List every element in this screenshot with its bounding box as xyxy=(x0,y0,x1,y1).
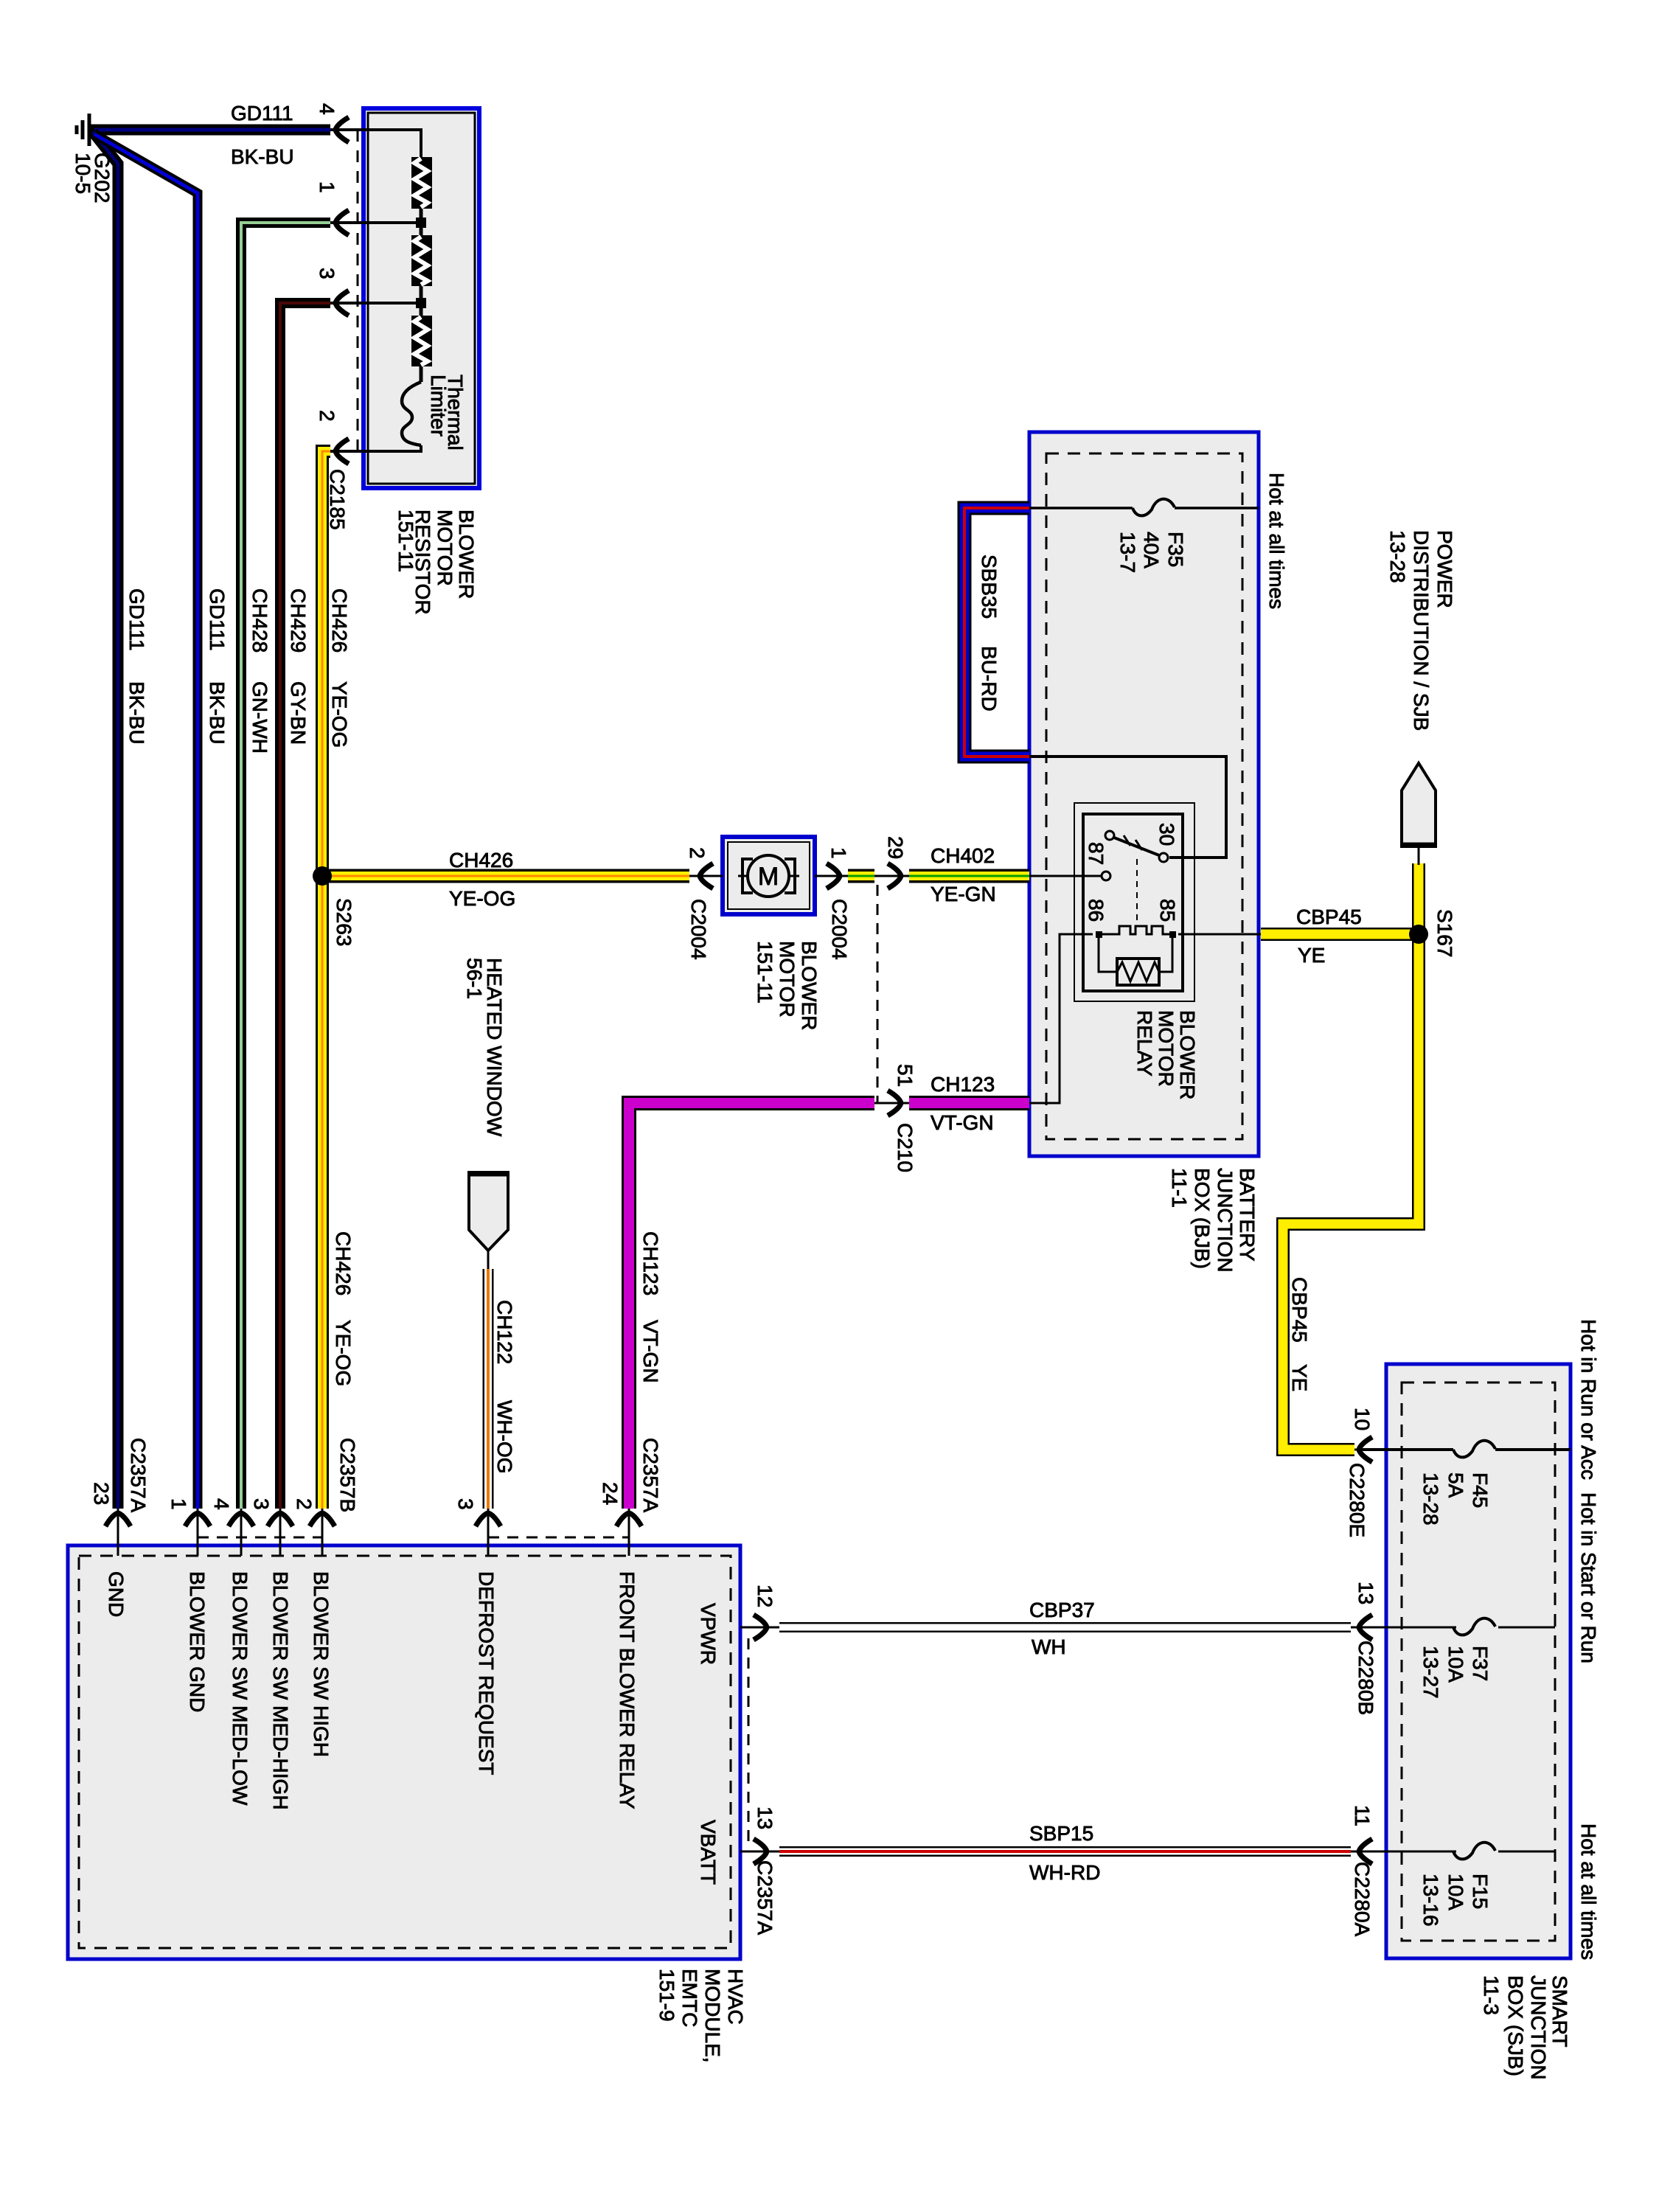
svg-text:S167: S167 xyxy=(1433,909,1456,957)
svg-text:SBP15: SBP15 xyxy=(1029,1822,1093,1845)
pin 1 line to chain xyxy=(330,221,421,224)
svg-text:13-28: 13-28 xyxy=(1419,1472,1442,1526)
dashed link switch to coil xyxy=(1136,859,1138,923)
svg-text:WH-OG: WH-OG xyxy=(493,1400,516,1474)
label heated window xyxy=(463,958,506,1137)
svg-text:YE-OG: YE-OG xyxy=(449,887,515,910)
svg-text:13-16: 13-16 xyxy=(1419,1874,1442,1927)
svg-text:BLOWER: BLOWER xyxy=(798,941,821,1030)
svg-text:YE: YE xyxy=(1288,1364,1311,1391)
label blower motor relay xyxy=(1133,1010,1199,1099)
resistor R1 xyxy=(411,157,432,209)
svg-text:Hot in Run or Acc: Hot in Run or Acc xyxy=(1577,1319,1600,1480)
heated window off-page pentagon xyxy=(469,1172,508,1269)
labels SJB fuses xyxy=(1419,1472,1492,1927)
junction squares xyxy=(416,218,426,228)
svg-text:YE-OG: YE-OG xyxy=(332,1320,355,1386)
svg-text:151-9: 151-9 xyxy=(655,1969,678,2022)
svg-text:VT-GN: VT-GN xyxy=(639,1320,662,1383)
label blower motor resistor xyxy=(394,509,478,615)
svg-text:1: 1 xyxy=(827,847,850,859)
svg-text:BOX (BJB): BOX (BJB) xyxy=(1191,1168,1214,1269)
svg-text:BATTERY: BATTERY xyxy=(1236,1168,1259,1262)
HVAC module box xyxy=(68,1545,740,1959)
svg-text:S263: S263 xyxy=(333,898,355,946)
svg-text:56-1: 56-1 xyxy=(463,958,486,999)
HVAC right connector dashed C2357A (pins 12-13) xyxy=(748,1638,750,1841)
svg-text:CBP45: CBP45 xyxy=(1288,1277,1311,1343)
arrows: SJB pins (tip left) xyxy=(1359,1437,1372,1462)
parallel resistor xyxy=(1099,934,1172,972)
motor circle M xyxy=(748,855,789,897)
svg-text:3: 3 xyxy=(454,1498,477,1510)
wire CBP37 WH : HVAC pin 12 to SJB pin 13 xyxy=(779,1622,1351,1632)
svg-text:C2185: C2185 xyxy=(326,469,349,530)
svg-text:BK-BU: BK-BU xyxy=(231,145,294,168)
svg-text:HVAC: HVAC xyxy=(724,1969,747,2025)
svg-text:11: 11 xyxy=(1351,1805,1374,1826)
pin 29/51 gap thin lines xyxy=(689,876,909,1103)
svg-text:YE-OG: YE-OG xyxy=(328,681,351,748)
svg-text:SBB35: SBB35 xyxy=(978,554,1001,619)
svg-text:C210: C210 xyxy=(894,1123,917,1172)
wire CH123 VT-GN : BJB to pin 51 xyxy=(909,1096,1029,1110)
svg-text:CH122: CH122 xyxy=(493,1300,516,1364)
svg-text:13-27: 13-27 xyxy=(1419,1646,1442,1699)
labels HVAC internal xyxy=(105,1571,720,1885)
label wire GD111 BK-BU top xyxy=(231,102,294,168)
splice S263 xyxy=(313,866,332,886)
labels blower motor pins xyxy=(686,836,917,1172)
BJB: F35 fuse line xyxy=(1029,507,1259,509)
svg-text:BLOWER GND: BLOWER GND xyxy=(186,1571,209,1712)
thermal limiter symbol xyxy=(402,382,421,445)
pin 3 line to chain xyxy=(330,302,421,305)
svg-text:BLOWER: BLOWER xyxy=(1176,1010,1199,1099)
svg-text:VPWR: VPWR xyxy=(697,1603,720,1665)
svg-text:40A: 40A xyxy=(1140,532,1163,568)
wire CBP45 YE : relay 85 to S167 xyxy=(1261,928,1413,941)
svg-text:13-7: 13-7 xyxy=(1116,532,1139,573)
wire CH123 VT-GN : pin 51 to HVAC pin 24 xyxy=(629,1103,874,1509)
svg-text:C2357A: C2357A xyxy=(754,1860,776,1935)
labels resistor pins xyxy=(316,103,349,530)
BJB internal: SBB35 to relay pin 30 xyxy=(1029,757,1226,858)
svg-text:F45: F45 xyxy=(1469,1472,1492,1508)
blower motor relay xyxy=(1074,803,1194,1001)
label wire CH426 lower xyxy=(332,1231,359,1512)
svg-text:MOTOR: MOTOR xyxy=(434,509,456,586)
BJB internal: CH123 to relay pin 86 xyxy=(1029,934,1093,1103)
svg-text:WH-RD: WH-RD xyxy=(1029,1861,1100,1884)
resistor box internal wiring xyxy=(330,130,426,451)
label blower motor xyxy=(754,941,821,1030)
svg-text:BLOWER SW MED-LOW: BLOWER SW MED-LOW xyxy=(229,1571,251,1806)
connector C210/C2004 dashed line xyxy=(877,885,879,1103)
BJB internal: relay pin 85 to CBP45 xyxy=(1178,933,1261,936)
svg-text:23: 23 xyxy=(90,1482,113,1505)
HVAC pin stub lines xyxy=(118,1509,779,1851)
svg-text:5A: 5A xyxy=(1444,1472,1467,1498)
resistor box: connector C2185 dashed line xyxy=(357,130,359,451)
blower motor resistor box xyxy=(364,108,479,488)
wire CH428 GN-WH : resistor pin 1 to HVAC pin 4 xyxy=(241,223,330,1509)
svg-text:12: 12 xyxy=(754,1585,776,1607)
SJB pin stub lines xyxy=(1351,1450,1386,1851)
switch: pin 87a contact and blade to pin 30 xyxy=(1105,831,1114,840)
svg-text:87: 87 xyxy=(1085,842,1107,865)
svg-text:CH123: CH123 xyxy=(639,1231,662,1295)
svg-text:C2280E: C2280E xyxy=(1346,1463,1368,1537)
label power distribution xyxy=(1386,530,1456,731)
svg-text:13: 13 xyxy=(754,1806,776,1829)
svg-text:BLOWER: BLOWER xyxy=(455,509,478,599)
svg-text:CH402: CH402 xyxy=(931,844,995,867)
svg-text:2: 2 xyxy=(686,847,709,859)
coil between 86 and 85 xyxy=(1099,926,1172,934)
svg-text:CH429: CH429 xyxy=(287,588,310,653)
wire SBB35 BU-RD : F35 loop outside BJB xyxy=(964,508,1029,757)
wire CH429 GY-BN : resistor pin 3 to HVAC pin 3 xyxy=(280,303,330,1509)
svg-text:BOX (SJB): BOX (SJB) xyxy=(1504,1975,1527,2076)
chain segments xyxy=(420,208,423,235)
label smart junction box xyxy=(1480,1975,1571,2080)
svg-text:F15: F15 xyxy=(1469,1874,1492,1909)
pin 2 line from thermal limiter xyxy=(330,445,421,451)
labels wire CBP37 WH xyxy=(1029,1599,1095,1658)
svg-text:30: 30 xyxy=(1155,823,1178,846)
label thermal limiter xyxy=(427,375,467,451)
svg-text:2: 2 xyxy=(316,410,338,422)
svg-text:2: 2 xyxy=(293,1498,316,1510)
svg-text:F37: F37 xyxy=(1469,1646,1492,1681)
resistor R3 xyxy=(411,316,432,366)
wire CH402 YE-GN : pin 29 to BJB xyxy=(909,869,1029,883)
power off-page pentagon (above S167) xyxy=(1402,763,1436,865)
svg-text:51: 51 xyxy=(894,1064,917,1087)
svg-text:1: 1 xyxy=(167,1498,190,1510)
svg-text:GD111: GD111 xyxy=(206,588,229,651)
svg-text:GD111: GD111 xyxy=(125,588,148,651)
svg-text:POWER: POWER xyxy=(1433,530,1456,608)
blower motor internals xyxy=(689,855,848,897)
fuse F15 xyxy=(1453,1843,1495,1860)
wire CH122 WH-OG : heated window to HVAC pin 3 xyxy=(483,1269,494,1509)
SJB fuse row 13 xyxy=(1360,1627,1555,1629)
svg-text:Hot in Start or Run: Hot in Start or Run xyxy=(1577,1492,1600,1663)
svg-text:BLOWER SW MED-HIGH: BLOWER SW MED-HIGH xyxy=(269,1571,292,1810)
svg-text:JUNCTION: JUNCTION xyxy=(1527,1975,1550,2080)
svg-text:86: 86 xyxy=(1085,899,1107,922)
wire CH426 YE-OG : S263 to blower motor pin 2 xyxy=(322,869,689,883)
svg-text:3: 3 xyxy=(250,1498,273,1510)
svg-text:151-11: 151-11 xyxy=(394,509,417,572)
SJB fuse row 10 xyxy=(1360,1448,1571,1451)
wire GD111 BK-BU #2 : ground diagonal to HVAC pin 1 xyxy=(94,134,198,1509)
fuse F45 xyxy=(1453,1441,1495,1458)
svg-text:BK-BU: BK-BU xyxy=(125,681,148,745)
arrow: pin 29 (tip right) xyxy=(888,863,901,888)
arrow: motor pin 2 (tip left) xyxy=(700,863,713,888)
label ground G202 10-5 xyxy=(72,153,114,204)
left brush xyxy=(742,859,753,893)
labels SJB hot feeds xyxy=(1577,1319,1600,1960)
svg-text:EMTC: EMTC xyxy=(678,1969,701,2027)
svg-text:RELAY: RELAY xyxy=(1133,1010,1156,1077)
svg-text:BU-RD: BU-RD xyxy=(978,646,1001,712)
labels HVAC top pins xyxy=(90,1438,622,1513)
svg-text:GD111: GD111 xyxy=(231,102,293,125)
labels vertical wire names xyxy=(125,588,351,754)
svg-text:WH: WH xyxy=(1032,1635,1066,1658)
right brush xyxy=(785,859,795,893)
label wire CH122 WH-OG xyxy=(493,1300,516,1474)
svg-text:MOTOR: MOTOR xyxy=(1155,1010,1178,1087)
labels relay pins xyxy=(1085,823,1179,922)
svg-text:VT-GN: VT-GN xyxy=(931,1111,994,1134)
svg-text:VBATT: VBATT xyxy=(697,1820,720,1885)
label wire SBB35 BU-RD xyxy=(978,554,1001,712)
svg-text:CH426: CH426 xyxy=(449,849,513,872)
svg-text:C2004: C2004 xyxy=(828,899,851,960)
svg-text:4: 4 xyxy=(210,1498,233,1510)
svg-text:C2280A: C2280A xyxy=(1351,1862,1374,1937)
svg-text:BK-BU: BK-BU xyxy=(206,681,229,745)
svg-text:4: 4 xyxy=(316,103,338,115)
arrows: HVAC right pins (tip right) xyxy=(754,1615,767,1640)
svg-text:10A: 10A xyxy=(1444,1874,1467,1910)
fuse F35 xyxy=(1133,499,1175,516)
svg-text:151-11: 151-11 xyxy=(754,941,776,1004)
fuse F37 xyxy=(1453,1618,1495,1635)
arrows: HVAC top pins (tip up) xyxy=(105,1513,131,1526)
HVAC connector dashed C2357A (pins 3-24) xyxy=(488,1537,629,1539)
svg-text:F35: F35 xyxy=(1164,532,1187,567)
svg-text:FRONT BLOWER RELAY: FRONT BLOWER RELAY xyxy=(616,1571,639,1809)
wire SBP15 WH-RD : HVAC pin 13 to SJB pin 11 xyxy=(779,1846,1351,1857)
wire CBP45 YE : S167 down to SJB pin 10 xyxy=(1283,863,1419,1450)
arrow: pin 51 (tip right) xyxy=(888,1091,901,1116)
svg-text:YE: YE xyxy=(1298,944,1325,967)
pin 87 contact xyxy=(1102,872,1110,880)
svg-text:MODULE,: MODULE, xyxy=(701,1969,724,2063)
blower motor box xyxy=(723,837,815,914)
svg-text:10-5: 10-5 xyxy=(72,153,94,194)
label battery junction box xyxy=(1168,1168,1259,1273)
labels wire CBP45 xyxy=(1288,905,1362,1391)
svg-text:JUNCTION: JUNCTION xyxy=(1214,1168,1237,1273)
svg-text:11-1: 11-1 xyxy=(1168,1168,1191,1208)
wire GD111 BK-BU : ground to resistor pin 4 xyxy=(91,125,330,136)
svg-text:DEFROST REQUEST: DEFROST REQUEST xyxy=(475,1571,498,1775)
resistor R2 xyxy=(411,235,432,286)
labels wire CH426 horizontal xyxy=(449,849,515,910)
labels wire CH123 horizontal xyxy=(931,1073,995,1134)
svg-text:Limiter: Limiter xyxy=(427,375,450,437)
svg-text:GY-BN: GY-BN xyxy=(287,681,310,745)
wire CH402 YE-GN : motor pin 1 short segment xyxy=(848,869,874,883)
svg-text:CH428: CH428 xyxy=(248,588,271,653)
svg-text:GN-WH: GN-WH xyxy=(248,681,271,754)
svg-text:CBP45: CBP45 xyxy=(1296,905,1362,928)
svg-text:1: 1 xyxy=(316,181,338,193)
wire CH426 YE-OG : resistor pin 2 down through S263 to HVAC pin 2 xyxy=(322,451,330,1509)
svg-text:C2357A: C2357A xyxy=(639,1438,662,1513)
label wire CH123 vertical xyxy=(639,1231,662,1513)
pin 4 line to chain xyxy=(330,130,421,157)
svg-text:CH123: CH123 xyxy=(931,1073,995,1096)
svg-text:13: 13 xyxy=(1354,1582,1377,1604)
label HVAC module EMTC xyxy=(655,1969,747,2063)
svg-text:CBP37: CBP37 xyxy=(1029,1599,1095,1621)
svg-text:11-3: 11-3 xyxy=(1480,1975,1503,2015)
HVAC connector dashed C2357B (pins 1-2) xyxy=(198,1537,323,1539)
svg-text:YE-GN: YE-GN xyxy=(931,883,996,905)
svg-text:C2357B: C2357B xyxy=(336,1438,359,1512)
svg-text:29: 29 xyxy=(884,836,907,859)
splice S167 xyxy=(1409,925,1428,944)
svg-text:13-28: 13-28 xyxy=(1386,530,1409,583)
through line xyxy=(689,875,848,877)
svg-text:CH426: CH426 xyxy=(332,1231,355,1295)
svg-text:M: M xyxy=(758,863,779,891)
battery junction box (BJB) xyxy=(1029,432,1259,1156)
svg-text:Hot at all times: Hot at all times xyxy=(1265,473,1288,609)
svg-text:C2280B: C2280B xyxy=(1354,1641,1377,1715)
svg-text:MOTOR: MOTOR xyxy=(776,941,799,1018)
svg-text:3: 3 xyxy=(316,268,338,279)
svg-text:C2004: C2004 xyxy=(687,899,710,960)
arrows: resistor pins (tip left) xyxy=(335,117,349,142)
svg-text:85: 85 xyxy=(1156,899,1179,922)
svg-text:BLOWER SW HIGH: BLOWER SW HIGH xyxy=(310,1571,333,1757)
labels SJB pins xyxy=(1346,1408,1377,1937)
svg-text:CH426: CH426 xyxy=(328,588,351,653)
resistor pin stub lines xyxy=(330,130,370,451)
svg-text:10A: 10A xyxy=(1444,1646,1467,1683)
svg-text:DISTRIBUTION / SJB: DISTRIBUTION / SJB xyxy=(1410,530,1433,731)
labels wire SBP15 WH-RD xyxy=(1029,1822,1100,1884)
SJB fuse row 11 xyxy=(1360,1851,1555,1853)
svg-text:C2357A: C2357A xyxy=(127,1438,150,1513)
svg-text:Hot at all times: Hot at all times xyxy=(1577,1823,1600,1960)
svg-text:10: 10 xyxy=(1351,1408,1374,1430)
svg-text:24: 24 xyxy=(599,1482,622,1505)
labels HVAC right pins xyxy=(754,1585,776,1935)
BJB internal: CH402 to relay pin 87 xyxy=(1029,875,1102,877)
labels BJB F35 xyxy=(1116,473,1288,609)
smart junction box (SJB) xyxy=(1386,1364,1571,1958)
arrow: motor pin 1 (tip right) xyxy=(827,863,840,888)
labels wire CH402 xyxy=(931,844,996,905)
wire GD111 BK-BU : ground down to HVAC pin 23 xyxy=(93,132,118,1509)
svg-text:GND: GND xyxy=(105,1571,128,1617)
svg-text:SMART: SMART xyxy=(1548,1975,1571,2048)
ground G202 xyxy=(77,114,89,146)
